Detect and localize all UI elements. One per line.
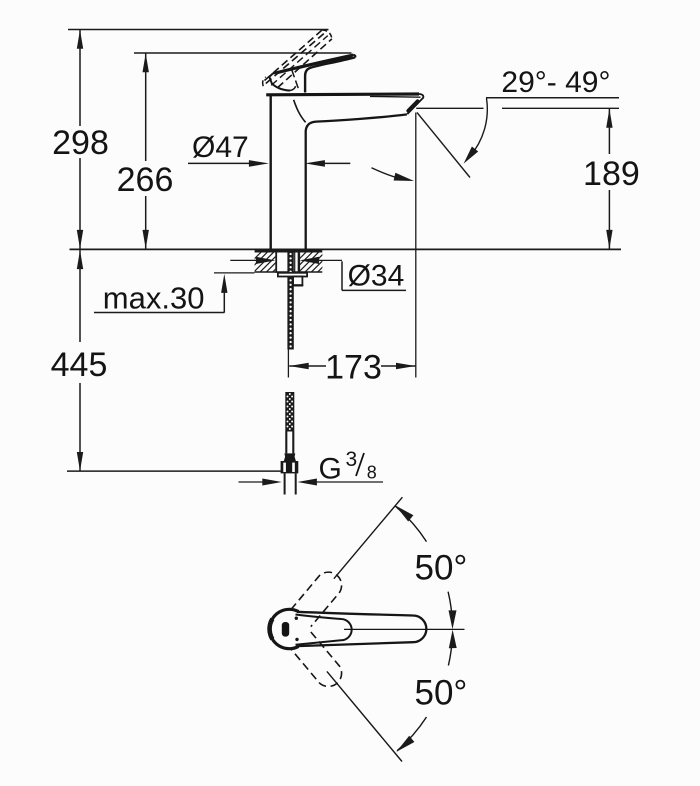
arc for 29-49 angle [470, 98, 488, 157]
dashed raised handle bottom edge [278, 39, 332, 88]
stream angle ray from aerator [417, 113, 470, 178]
swivel arc upper segments [395, 506, 427, 542]
leader arrows Ø34 [230, 259, 256, 261]
counter bottom line [255, 271, 323, 273]
handle underside sweeping into neck [305, 57, 355, 92]
hose smooth section walls [285, 432, 287, 454]
extension line from threaded rod [287, 346, 289, 378]
threaded rod upper segment [287, 251, 293, 350]
handle tip [353, 55, 355, 58]
spout underside and body right edge [306, 114, 407, 248]
spout top back edge thin line [370, 95, 421, 98]
svg-text:50°: 50° [415, 549, 468, 588]
dashed handle rotated down 50 [291, 632, 347, 692]
svg-text:max.30: max.30 [103, 281, 205, 316]
svg-text:Ø47: Ø47 [192, 131, 249, 164]
cap dots [295, 617, 298, 620]
handle interior line 2 [298, 57, 353, 68]
handle interior line 1 [276, 56, 353, 74]
svg-text:445: 445 [51, 346, 108, 384]
svg-text:298: 298 [52, 124, 109, 162]
G 3/8 dimension line with arrows [239, 481, 264, 483]
mounting nut [293, 277, 302, 286]
dashed arc raised-handle butt [263, 77, 266, 86]
counter / deck line [70, 248, 622, 250]
center line [344, 628, 465, 630]
hatched counter section left [241, 252, 293, 273]
handle lever top edge [273, 55, 353, 74]
shank left wall [275, 250, 277, 272]
extension line from spout tip down [415, 113, 417, 378]
hose end collar [284, 453, 296, 461]
body/spout top edge [266, 92, 419, 96]
max.30 underline [94, 312, 225, 314]
handle cap thick left rim [270, 619, 273, 639]
cap pill mark [282, 622, 289, 637]
upper 50 ray [334, 497, 403, 579]
supply tube [284, 473, 286, 494]
lever outline [297, 612, 426, 646]
interior transition curve [294, 100, 306, 123]
dimension 173 horizontal [289, 365, 326, 367]
svg-text:8: 8 [367, 463, 377, 483]
wire extension line at solid handle tip (266 reference) [134, 52, 352, 54]
body left edge [270, 96, 272, 249]
braided flex hose lower segment [285, 392, 294, 432]
svg-text:Ø34: Ø34 [348, 260, 405, 293]
swivel arc lower segments [448, 635, 452, 666]
dimension 266 vertical line [145, 53, 147, 161]
curved leader arrow to spout tip vertical [372, 168, 405, 180]
dashed raised handle top edge [266, 32, 325, 83]
butt bottom curl [290, 86, 296, 90]
spout tip face [407, 94, 423, 114]
inner blade contour [296, 615, 352, 645]
lower 50 ray [327, 671, 402, 761]
svg-text:50°: 50° [415, 674, 468, 713]
svg-text:G: G [319, 453, 342, 486]
dimension 298 vertical line [79, 30, 81, 126]
svg-text:3: 3 [346, 448, 358, 471]
handle butt cap [269, 73, 290, 90]
arc arrowheads [396, 506, 414, 522]
svg-text:266: 266 [117, 161, 174, 199]
G3/8 hex nut [281, 461, 299, 473]
dashed raised handle interior [271, 36, 328, 86]
dimension 445 vertical line [79, 250, 81, 342]
wire extension line top of raised handle (298 reference) [68, 29, 329, 31]
bottom reference line (end of 445) [67, 470, 281, 472]
svg-text:29°- 49°: 29°- 49° [501, 66, 610, 99]
max.30 clamp level line [214, 272, 255, 274]
dimension 189 vertical line [608, 109, 610, 154]
svg-text:173: 173 [325, 349, 382, 387]
dashed raised handle outer top edge [265, 30, 323, 81]
aerator [408, 101, 417, 110]
hatched counter section right [286, 252, 338, 273]
mounting washer plate [278, 273, 307, 277]
Ø34 label bracket [341, 261, 343, 290]
escutcheon base plate [255, 249, 323, 252]
dashed raised handle tip arc [322, 30, 332, 39]
shank right wall [298, 250, 300, 272]
label 29-49 underline [486, 97, 619, 99]
max.30 leader vertical with up arrow [223, 291, 225, 313]
hidden cartridge dashed line [292, 70, 299, 89]
handle cap outline [270, 609, 299, 648]
shank inner line [294, 252, 296, 273]
svg-text:189: 189 [583, 155, 640, 193]
Ø47 leader with arrows [188, 162, 251, 164]
aerator level reference line [416, 107, 483, 109]
dashed handle rotated up 50 [291, 567, 347, 627]
